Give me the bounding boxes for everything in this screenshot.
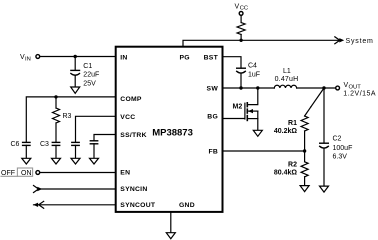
label R2 value	[274, 162, 298, 177]
pin label IN	[120, 54, 127, 61]
label System	[346, 38, 374, 45]
switch label OFF/ON	[1, 168, 33, 177]
label VIN	[20, 54, 31, 63]
resistor R1	[301, 116, 308, 131]
node PG/pull-up junction	[239, 39, 242, 42]
wire VOUT node to C2	[323, 88, 325, 143]
capacitor C4 (polarized)	[237, 68, 246, 73]
ground below C6	[22, 158, 31, 164]
svg-text:CC: CC	[240, 6, 248, 12]
pin label SS/TRK	[120, 132, 146, 139]
arrow out of SYNCOUT	[33, 201, 44, 208]
capacitor C6	[23, 142, 30, 145]
pin label BG	[207, 113, 218, 120]
wire SW	[223, 87, 275, 89]
pin label SW	[207, 85, 219, 92]
terminal VIN	[36, 55, 40, 59]
wire C3 to ground	[55, 145, 57, 158]
wire R2 to ground	[304, 177, 306, 186]
svg-text:EN: EN	[120, 170, 130, 177]
svg-text:C2: C2	[333, 136, 342, 143]
svg-text:80.4kΩ: 80.4kΩ	[274, 170, 298, 177]
label VOUT	[343, 82, 376, 98]
wire SYNCIN	[38, 188, 116, 190]
wire FB	[223, 150, 305, 152]
ground below C1	[71, 87, 80, 93]
wire L1 to VOUT	[297, 87, 336, 89]
svg-text:100uF: 100uF	[333, 145, 353, 152]
IC title MP38873	[152, 128, 193, 139]
pin label GND	[179, 202, 195, 209]
wire COMP pin to compensation network	[26, 97, 115, 142]
wire VCC pin to decoupling capacitor	[76, 116, 116, 142]
svg-text:C6: C6	[11, 141, 20, 148]
wire C4 to SW	[240, 73, 242, 88]
capacitor C1 (polarized)	[71, 70, 80, 75]
label C1 value	[83, 63, 99, 88]
wire C1 bottom	[74, 75, 76, 87]
svg-text:GND: GND	[179, 202, 195, 209]
wire VCC to pull-up resistor	[240, 15, 242, 22]
label C2 value	[333, 136, 353, 161]
svg-text:FB: FB	[208, 149, 218, 156]
pin label EN	[120, 170, 130, 177]
node FB/R1/R2 junction	[303, 149, 306, 152]
transistor M2 gate plate	[244, 103, 246, 119]
wire C1 top	[74, 57, 76, 71]
svg-text:25V: 25V	[83, 81, 96, 88]
svg-text:BST: BST	[204, 54, 219, 61]
ground below C2	[320, 186, 329, 192]
pin label FB	[208, 149, 218, 156]
svg-text:PG: PG	[180, 54, 190, 61]
ground below SS capacitor	[90, 158, 99, 164]
ground below R2	[300, 186, 309, 192]
arrow to System	[335, 37, 344, 44]
capacitor on SS/TRK	[90, 141, 97, 144]
svg-text:IN: IN	[120, 54, 127, 61]
svg-text:COMP: COMP	[120, 96, 142, 103]
svg-text:SW: SW	[207, 85, 219, 92]
pin label SYNCIN	[120, 186, 147, 193]
svg-text:C3: C3	[40, 141, 49, 148]
terminal VOUT	[336, 86, 340, 90]
svg-text:22uF: 22uF	[83, 72, 99, 79]
inductor L1	[274, 85, 296, 88]
wire SS/TRK pin to soft-start capacitor	[94, 135, 116, 141]
ground below VCC capacitor	[71, 158, 80, 164]
wire C2 to ground	[323, 148, 325, 186]
node SW/C4 junction	[239, 86, 242, 89]
svg-text:L1: L1	[283, 68, 291, 75]
svg-text:System: System	[346, 38, 374, 45]
wire VOUT to R1 (diagonal)	[305, 88, 324, 116]
node COMP/R3 junction	[54, 95, 57, 98]
wire pull-up to PG line	[240, 35, 242, 41]
svg-text:40.2kΩ: 40.2kΩ	[274, 128, 298, 135]
svg-text:SYNCOUT: SYNCOUT	[120, 202, 156, 209]
svg-text:C1: C1	[83, 63, 92, 70]
label R3	[63, 113, 72, 120]
svg-text:M2: M2	[233, 104, 243, 111]
ground below C3	[52, 158, 61, 164]
transistor M2 source wire	[247, 111, 257, 130]
capacitor on VCC	[72, 142, 79, 145]
svg-text:SS/TRK: SS/TRK	[120, 132, 146, 139]
svg-text:R3: R3	[63, 113, 72, 120]
svg-text:R2: R2	[288, 162, 297, 169]
wire SS cap to ground	[93, 144, 95, 159]
pin label SYNCOUT	[120, 202, 156, 209]
wire GND pin	[170, 212, 172, 233]
capacitor C2 (polarized)	[320, 143, 329, 148]
wire R3 to C3	[55, 123, 57, 142]
svg-text:BG: BG	[207, 113, 218, 120]
node SW/M2 junction	[256, 86, 259, 89]
label M2	[233, 104, 243, 111]
pin label VCC	[120, 114, 135, 121]
pin label BST	[204, 54, 219, 61]
svg-text:R1: R1	[288, 120, 297, 127]
label C4 value	[248, 63, 260, 79]
arrow into SYNCIN	[34, 186, 43, 193]
capacitor C3	[52, 142, 59, 145]
wire PG to System	[183, 40, 339, 46]
wire R1 to FB node	[304, 131, 306, 162]
wire SYNCOUT	[34, 204, 116, 206]
wire C6 to ground	[25, 145, 27, 158]
wire R3 top	[55, 97, 57, 108]
ground below IC	[166, 233, 175, 239]
svg-text:SYNCIN: SYNCIN	[120, 186, 147, 193]
label C6	[11, 141, 20, 148]
svg-text:6.3V: 6.3V	[333, 154, 348, 161]
label R1 value	[274, 120, 298, 135]
svg-text:C4: C4	[248, 63, 257, 70]
pin label COMP	[120, 96, 142, 103]
label L1 value	[275, 68, 299, 83]
resistor PG pull-up	[237, 23, 245, 35]
ground below M2	[253, 130, 262, 136]
label C3	[40, 141, 49, 148]
svg-text:0.47uH: 0.47uH	[275, 76, 299, 83]
svg-text:1.2V/15A: 1.2V/15A	[343, 91, 376, 98]
transistor M2 gate wire from BG	[223, 118, 245, 120]
transistor M2 body arrow	[248, 109, 258, 113]
wire VIN to IN pin	[40, 56, 116, 58]
resistor R3	[53, 108, 60, 123]
svg-text:VCC: VCC	[120, 114, 135, 121]
resistor R2	[301, 162, 308, 177]
transistor M2 drain wire	[247, 88, 257, 105]
svg-text:MP38873: MP38873	[152, 128, 193, 139]
node VOUT junction	[322, 86, 325, 89]
wire VCC cap to ground	[75, 145, 77, 158]
IC U1 MP38873 body	[116, 47, 223, 212]
svg-text:1uF: 1uF	[248, 72, 260, 79]
terminal EN	[36, 171, 40, 175]
wire BST to C4	[223, 57, 242, 68]
wire EN	[40, 172, 116, 174]
transistor M2 channel	[246, 103, 248, 121]
terminal VCC	[239, 12, 243, 16]
node VIN/C1 junction	[74, 55, 77, 58]
pin label PG	[180, 54, 190, 61]
label VCC supply	[235, 3, 249, 11]
svg-text:IN: IN	[25, 57, 31, 63]
